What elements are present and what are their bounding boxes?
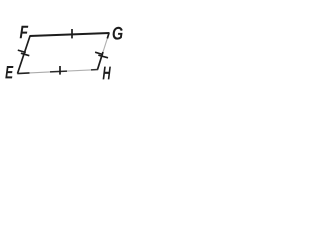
vertex label E [5, 66, 13, 78]
side FG of parallelogram [30, 33, 110, 36]
vertex label H [103, 67, 111, 80]
double tick on side EF [18, 50, 30, 56]
double tick on side GH [95, 52, 108, 58]
side EH of parallelogram [17, 70, 98, 74]
tick mark on side FG [71, 29, 73, 38]
vertex label G [113, 27, 123, 40]
side EF of parallelogram [18, 36, 31, 74]
side GH of parallelogram [98, 33, 110, 70]
tick mark on side EH [59, 66, 61, 75]
vertex label F [20, 26, 29, 39]
